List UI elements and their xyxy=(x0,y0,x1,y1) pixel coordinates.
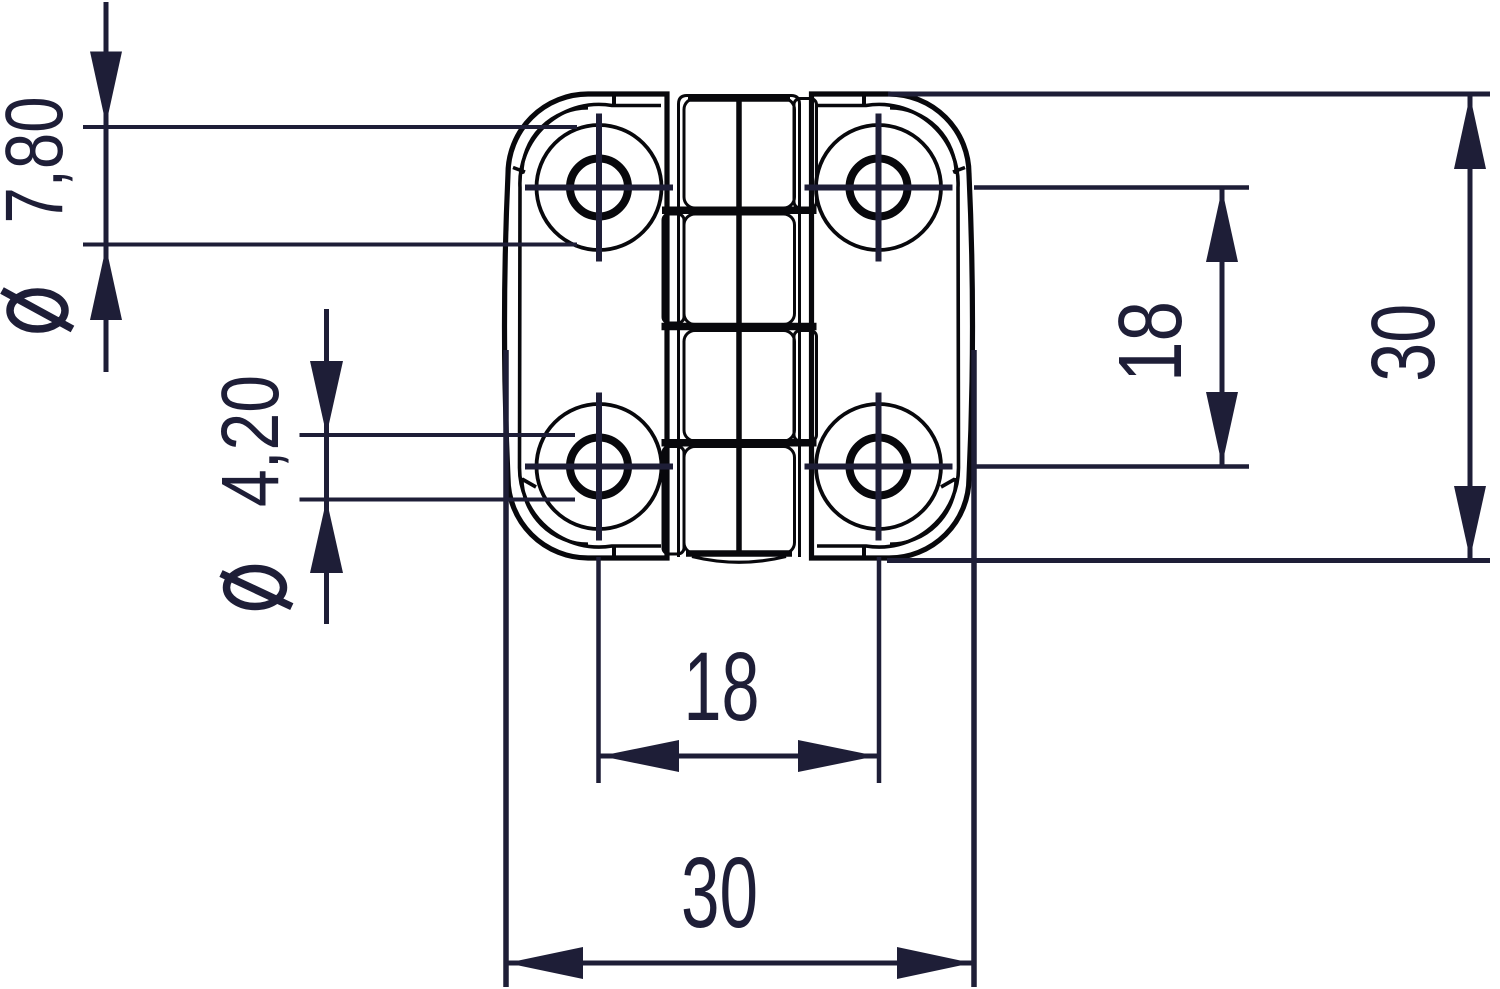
knuckle segment 2 left tab xyxy=(663,214,684,323)
svg-text:7,80: 7,80 xyxy=(0,97,80,224)
corner tick lower-right xyxy=(941,479,955,487)
knuckle division 1 xyxy=(662,207,817,215)
counterbore circle bottom-right xyxy=(816,404,941,529)
barrel outer sleeve (thin verticals with rounded top) xyxy=(679,96,800,558)
dim 4,20 extension line top xyxy=(300,433,576,437)
svg-text:18: 18 xyxy=(1101,301,1201,382)
screw hole top-left xyxy=(570,159,628,217)
left leaf inner chamfer contour xyxy=(519,104,661,547)
dim 7,80 arrowhead down xyxy=(90,52,122,125)
dim 4,20 arrowhead down xyxy=(310,361,343,435)
diameter symbol for 4,20 xyxy=(221,569,292,607)
dim 30 bottom arrowhead right xyxy=(897,947,972,979)
dim 30 bottom extension line left xyxy=(503,350,509,987)
knuckle bottom protrusion xyxy=(686,550,792,557)
dim 30 right arrowhead up xyxy=(1454,96,1486,170)
knuckle segment 1 right tab xyxy=(794,99,817,209)
dim 18 bottom extension line right xyxy=(877,557,882,783)
knuckle segment 4 xyxy=(684,447,795,554)
hinge pin center line xyxy=(736,96,742,557)
corner tick upper-left xyxy=(513,168,525,173)
chamfer tick bottom-right leaf xyxy=(862,545,866,559)
knuckle segment 1 xyxy=(684,99,795,209)
knuckle division 3 xyxy=(662,439,817,447)
dim 18 right extension line bottom xyxy=(974,464,1249,469)
dim 7,80 arrowhead up xyxy=(90,247,122,320)
crosshair top-left hole xyxy=(525,114,673,262)
chamfer tick top-left leaf xyxy=(612,94,616,107)
screw hole bottom-right xyxy=(850,438,908,496)
dim 30 right arrowhead down xyxy=(1454,486,1486,559)
crosshair bottom-right hole xyxy=(805,393,953,541)
knuckle segment 3 right tab xyxy=(794,331,817,442)
crosshair top-right hole xyxy=(805,114,953,262)
knuckle segment 3 xyxy=(684,331,795,442)
counterbore circle top-right xyxy=(816,125,941,250)
chamfer tick bottom-left leaf xyxy=(612,545,616,559)
dim 18 bottom extension line left xyxy=(596,557,601,783)
dim 4,20 arrowhead up xyxy=(310,500,343,574)
dim 18 bottom dimension line xyxy=(599,754,878,759)
svg-text:18: 18 xyxy=(684,632,760,741)
dim 18 bottom arrowhead right xyxy=(798,740,877,772)
dim 30 bottom arrowhead left xyxy=(507,947,583,979)
dim 18 right arrowhead down xyxy=(1206,392,1238,465)
counterbore circle bottom-left xyxy=(537,404,662,529)
svg-text:30: 30 xyxy=(681,837,758,949)
dim 18 right dimension line xyxy=(1220,188,1225,467)
counterbore circle top-left xyxy=(537,125,662,250)
knuckle division 2 xyxy=(662,323,817,331)
chamfer tick top-right leaf xyxy=(862,94,866,107)
dim 18 bottom arrowhead left xyxy=(601,740,680,772)
svg-text:4,20: 4,20 xyxy=(205,375,296,507)
right leaf inner chamfer contour xyxy=(817,104,959,547)
dim 4,20 dimension line xyxy=(324,309,329,624)
dim 30 right extension line bottom xyxy=(887,558,1490,563)
corner tick upper-right xyxy=(953,168,965,173)
dim 7,80 dimension line xyxy=(104,2,109,372)
right leaf outer contour xyxy=(812,94,973,558)
dim 30 right extension line top xyxy=(888,92,1490,97)
knuckle segment 4 left tab xyxy=(663,447,684,555)
dim 30 bottom dimension line xyxy=(507,961,974,966)
dim 7,80 extension line top xyxy=(83,125,577,129)
dim 30 bottom extension line right xyxy=(971,350,977,987)
screw hole bottom-left xyxy=(570,438,628,496)
screw hole top-right xyxy=(850,159,908,217)
dim 18 right arrowhead up xyxy=(1206,189,1238,262)
corner tick lower-left xyxy=(522,479,536,487)
diameter symbol for 7,80 xyxy=(2,291,73,330)
knuckle segment 2 xyxy=(684,214,795,325)
crosshair bottom-left hole xyxy=(525,393,673,541)
left leaf outer contour xyxy=(505,94,668,558)
dim 30 right dimension line xyxy=(1468,94,1473,560)
svg-text:30: 30 xyxy=(1354,304,1454,382)
dim 4,20 extension line bottom xyxy=(300,498,576,502)
dim 18 right extension line top xyxy=(974,185,1249,190)
dim 7,80 extension line bottom xyxy=(83,243,577,247)
